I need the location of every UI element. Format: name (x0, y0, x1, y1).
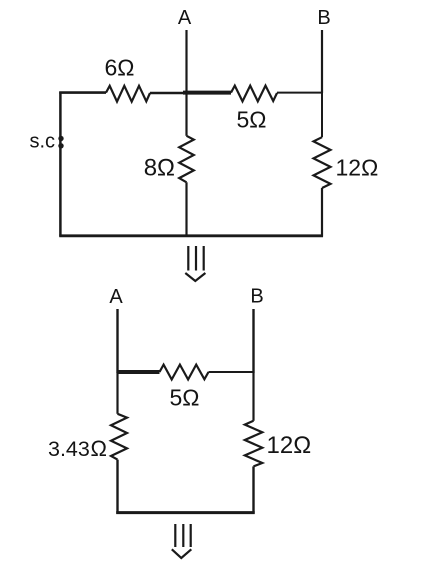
wire: segment between 6Ω and node A (150, 92, 187, 95)
svg-text:8Ω: 8Ω (144, 155, 175, 182)
wire: terminal B stub (top) (321, 30, 323, 93)
svg-text:B: B (250, 286, 263, 308)
svg-text:Ω: Ω (91, 436, 107, 461)
wire: 8Ω branch upper (185, 93, 187, 136)
svg-text:6Ω: 6Ω (105, 55, 135, 81)
svg-text:5Ω: 5Ω (170, 385, 200, 411)
equivalence arrow bar 3 (203, 246, 205, 271)
wire: terminal B stub (bottom) (252, 309, 254, 373)
svg-text:s.c: s.c (30, 131, 56, 153)
wire: 12Ω branch lower (top) (321, 188, 323, 237)
svg-text:A: A (178, 7, 192, 29)
resistor 3.43Ω (bottom left) (111, 414, 127, 460)
svg-text:3.43: 3.43 (48, 437, 90, 461)
equivalence arrow (between circuits) bar 1 (187, 246, 189, 271)
wire: segment 5Ω to node B (bottom) (209, 371, 254, 373)
equivalence arrow head (185, 273, 205, 281)
wire: bottom horizontal (bottom circuit) (116, 511, 255, 514)
resistor 5Ω (bottom) (160, 365, 209, 380)
svg-text:B: B (317, 7, 330, 29)
wire: terminal A stub (top) (185, 30, 187, 93)
svg-text:A: A (109, 286, 123, 308)
svg-text:12Ω: 12Ω (336, 155, 379, 181)
svg-text:5Ω: 5Ω (237, 107, 267, 133)
wire: bold segment node A to 5Ω (bottom) (117, 370, 160, 374)
resistor 6Ω (top) (106, 86, 150, 102)
wire: left vertical (short-circuit branch) (59, 92, 62, 237)
wire: 3.43Ω branch lower (116, 460, 118, 514)
resistor 5Ω (top) (231, 86, 277, 102)
wire: top-left horizontal segment (59, 91, 106, 94)
wire: 3.43Ω branch upper (116, 372, 118, 414)
resistor 8Ω (top middle) (179, 136, 194, 183)
wire: terminal A stub (bottom) (116, 309, 118, 373)
junction dot upper (s.c) (58, 136, 63, 141)
wire: 12Ω branch upper (bottom) (252, 372, 254, 421)
svg-text:12Ω: 12Ω (267, 432, 312, 459)
equivalence arrow bar 2 (195, 246, 197, 271)
resistor 12Ω (bottom right) (245, 421, 262, 467)
equivalence arrow head (bottom) (172, 549, 192, 558)
wire: bottom horizontal (top circuit) (59, 234, 323, 237)
wire: 12Ω branch lower (bottom) (252, 466, 254, 513)
wire: 12Ω branch upper (top) (321, 93, 323, 138)
equivalence arrow (below bottom circuit) bar 1 (174, 524, 176, 547)
resistor 12Ω (top right) (314, 137, 331, 188)
equivalence arrow bar 2 (182, 524, 184, 547)
junction dot lower (s.c) (58, 143, 63, 148)
wire: segment 5Ω to node B (277, 92, 322, 94)
wire: bold segment node A to 5Ω (183, 91, 231, 95)
equivalence arrow bar 3 (190, 524, 192, 547)
wire: 8Ω branch lower (185, 182, 187, 236)
